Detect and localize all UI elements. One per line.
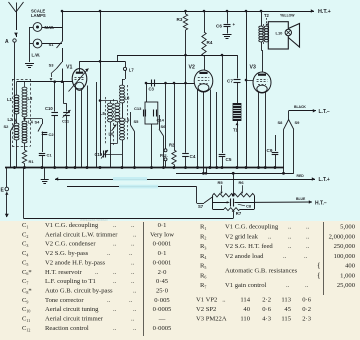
svg-text:0·005: 0·005 [154,297,170,304]
svg-text:{: { [317,261,321,270]
svg-text:V1 VP2 ..: V1 VP2 .. [196,297,226,304]
svg-text:..: .. [113,278,117,285]
svg-text:S3: S3 [49,63,55,68]
svg-text:..: .. [305,282,309,289]
svg-text:RED: RED [297,174,305,178]
svg-text:5,000: 5,000 [340,224,356,231]
svg-text:YELLOW: YELLOW [280,14,295,18]
svg-text:0·0005: 0·0005 [153,325,172,332]
svg-text:H.T.+: H.T.+ [318,9,331,15]
svg-text:P.U.: P.U. [160,153,168,158]
svg-text:R7: R7 [236,211,242,216]
svg-text:BLUE: BLUE [296,197,306,201]
svg-text:..: .. [129,297,133,304]
svg-text:..: .. [113,306,117,313]
svg-text:V2 C.G. condenser: V2 C.G. condenser [45,241,96,248]
svg-text:..: .. [304,253,308,260]
svg-text:S1: S1 [49,42,55,47]
svg-text:L.T.+: L.T.+ [319,177,330,183]
svg-text:..: .. [133,306,137,313]
svg-text:Aerial circuit L.W. trimmer: Aerial circuit L.W. trimmer [45,231,118,238]
svg-text:V2 anode H.F. by-pass: V2 anode H.F. by-pass [45,259,106,266]
svg-text:40: 40 [243,306,250,313]
svg-text:0·0005: 0·0005 [153,306,172,313]
svg-text:2·2: 2·2 [262,297,271,304]
svg-text:2·0: 2·0 [158,269,167,276]
svg-text:113: 113 [281,297,291,304]
svg-text:250,000: 250,000 [334,243,356,250]
svg-text:L6: L6 [109,132,115,137]
svg-text:..: .. [131,259,135,266]
svg-text:C3: C3 [149,87,155,92]
svg-text:R5: R5 [218,180,224,185]
svg-text:..: .. [306,224,310,231]
svg-text:L7: L7 [129,68,135,73]
svg-text:LAMPS: LAMPS [31,13,46,18]
svg-text:C6: C6 [216,24,222,29]
svg-text:Very low: Very low [150,231,174,238]
svg-text:..: .. [288,243,292,250]
svg-text:V3: V3 [250,65,256,71]
svg-text:114: 114 [240,297,250,304]
svg-text:V1: V1 [66,65,72,71]
svg-text:L.W.: L.W. [32,53,41,58]
svg-text:2,000,000: 2,000,000 [329,233,356,240]
svg-text:—: — [158,316,166,323]
svg-text:C7: C7 [227,79,233,84]
svg-text:100,000: 100,000 [334,253,356,260]
svg-text:1,000: 1,000 [340,272,356,279]
svg-text:V2 S.G. H.T. feed: V2 S.G. H.T. feed [225,243,273,250]
svg-text:R2: R2 [169,143,175,148]
svg-text:V1 C.G. decoupling: V1 C.G. decoupling [45,222,99,229]
svg-text:..: .. [306,243,310,250]
svg-text:..: .. [133,231,137,238]
svg-text:V3 PM22A: V3 PM22A [196,315,227,322]
svg-text:..: .. [286,282,290,289]
svg-text:..: .. [288,224,292,231]
svg-text:..: .. [107,297,111,304]
svg-text:V2 S.G. by-pass: V2 S.G. by-pass [45,250,89,257]
svg-text:S7: S7 [198,204,204,209]
svg-text:L.F. coupling to T1: L.F. coupling to T1 [45,278,96,285]
svg-text:..: .. [113,222,117,229]
svg-text:Aerial circuit trimmer: Aerial circuit trimmer [45,316,104,323]
svg-text:25·0: 25·0 [156,288,169,295]
svg-text:L3: L3 [28,96,34,101]
svg-text:R1: R1 [29,159,35,164]
svg-text:+: + [233,22,236,27]
svg-text:C14: C14 [157,118,165,123]
svg-text:C8: C8 [246,204,252,209]
svg-text:C2: C2 [49,132,55,137]
svg-text:..: .. [131,222,135,229]
svg-text:C1: C1 [47,153,53,158]
svg-text:..: .. [131,278,135,285]
svg-text:..: .. [113,241,117,248]
svg-text:S2: S2 [4,124,10,129]
svg-text:..: .. [113,269,117,276]
svg-text:115: 115 [281,315,291,322]
svg-text:V1 C.G. decoupling: V1 C.G. decoupling [225,224,279,231]
svg-text:V2 grid leak: V2 grid leak [225,233,259,240]
svg-text:C13: C13 [134,106,142,111]
svg-text:T1: T1 [233,128,239,133]
svg-text:..: .. [283,253,287,260]
svg-text:L10: L10 [276,31,284,36]
svg-text:C12: C12 [95,152,103,157]
svg-text:R4: R4 [207,40,213,45]
svg-text:..: .. [131,241,135,248]
svg-text:{: { [317,270,321,279]
svg-text:0·6: 0·6 [302,297,311,304]
svg-text:0·1: 0·1 [158,250,167,257]
svg-text:Auto G.B. circuit by-pass: Auto G.B. circuit by-pass [45,288,113,295]
svg-text:Aerial circuit tuning: Aerial circuit tuning [45,306,99,313]
svg-text:Tone corrector: Tone corrector [45,297,84,304]
svg-text:..: .. [306,233,310,240]
svg-text:4·3: 4·3 [262,315,271,322]
svg-text:..: .. [131,269,135,276]
svg-text:..: .. [95,269,99,276]
svg-text:H.T.−: H.T.− [315,201,327,207]
svg-text:..: .. [133,288,137,295]
svg-text:C5: C5 [226,157,232,162]
svg-text:C4: C4 [190,154,196,159]
svg-text:45: 45 [284,306,291,313]
svg-text:..: .. [131,316,135,323]
svg-text:C10: C10 [45,106,53,111]
svg-text:H.T. reservoir: H.T. reservoir [45,269,82,276]
svg-text:..: .. [107,250,111,257]
svg-text:V2 anode load: V2 anode load [225,253,264,260]
svg-text:25,000: 25,000 [337,282,356,289]
svg-text:L2: L2 [8,117,14,122]
svg-text:0·45: 0·45 [156,278,169,285]
svg-text:L1: L1 [7,97,13,102]
svg-text:0·6: 0·6 [262,306,271,313]
svg-text:..: .. [133,325,137,332]
svg-text:S8: S8 [278,120,284,125]
svg-text:..: .. [113,325,117,332]
svg-text:0·1: 0·1 [158,222,167,229]
svg-text:L4: L4 [28,120,34,125]
svg-text:R6: R6 [239,180,245,185]
svg-text:C11: C11 [62,119,70,124]
svg-text:L.T.−: L.T.− [319,109,330,115]
svg-text:0·0001: 0·0001 [153,241,172,248]
svg-text:S4: S4 [35,120,41,125]
svg-text:..: .. [268,233,272,240]
svg-text:2·3: 2·3 [302,315,311,322]
svg-text:110: 110 [240,315,250,322]
svg-text:..: .. [288,233,292,240]
svg-text:V2: V2 [189,65,195,71]
svg-text:400: 400 [345,263,356,270]
svg-text:L5: L5 [100,111,106,116]
svg-text:A: A [5,39,9,45]
svg-text:0·0001: 0·0001 [153,259,172,266]
svg-text:S9: S9 [295,120,301,125]
svg-text:S5: S5 [134,119,140,124]
svg-text:0·2: 0·2 [302,306,311,313]
svg-text:..: .. [129,250,133,257]
svg-text:V2 SP2: V2 SP2 [196,306,223,313]
svg-text:V1 gain control: V1 gain control [225,282,267,289]
svg-text:Automatic G.B. resistances: Automatic G.B. resistances [225,268,298,275]
svg-text:Reaction control: Reaction control [45,325,89,332]
svg-text:BLACK: BLACK [294,105,306,109]
svg-text:T2: T2 [264,13,270,18]
svg-text:R3: R3 [177,17,183,22]
